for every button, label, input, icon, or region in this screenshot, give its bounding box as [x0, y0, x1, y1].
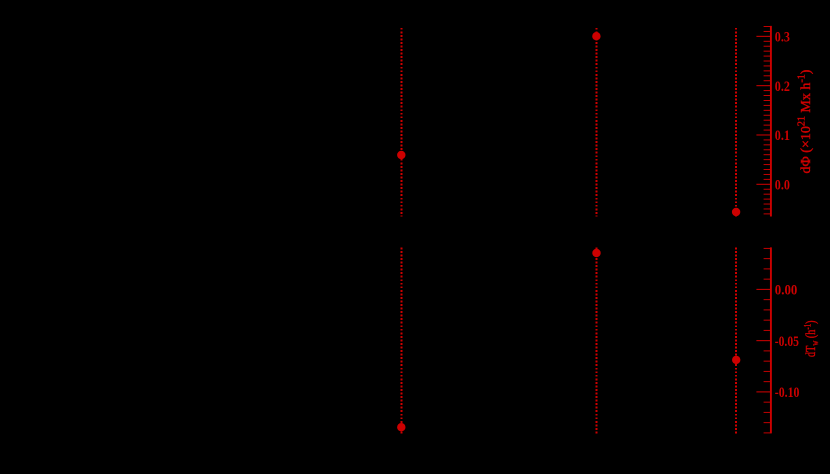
svg-text:-0.10: -0.10 [775, 385, 800, 401]
svg-text:0.1: 0.1 [775, 128, 790, 144]
svg-text:0.0: 0.0 [775, 177, 790, 193]
svg-text:-0.05: -0.05 [775, 334, 799, 350]
svg-text:0.00: 0.00 [775, 283, 798, 299]
svg-text:0.2: 0.2 [775, 79, 790, 95]
svg-text:0.3: 0.3 [775, 29, 790, 45]
